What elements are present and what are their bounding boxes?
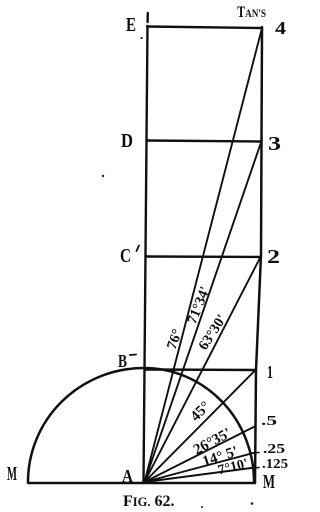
svg-text:FIG. 62.: FIG. 62. bbox=[123, 493, 175, 510]
svg-text:E: E bbox=[126, 14, 136, 36]
svg-text:TAN'S: TAN'S bbox=[237, 4, 266, 21]
svg-text:2: 2 bbox=[267, 246, 280, 268]
svg-text:D: D bbox=[121, 130, 133, 152]
svg-text:B: B bbox=[118, 351, 127, 371]
svg-text:.125: .125 bbox=[262, 457, 288, 472]
svg-text:M: M bbox=[263, 471, 275, 493]
svg-text:1: 1 bbox=[267, 362, 273, 382]
svg-text:.5: .5 bbox=[261, 414, 277, 429]
svg-text:.25: .25 bbox=[263, 442, 285, 457]
svg-text:C: C bbox=[120, 245, 131, 267]
svg-text:M: M bbox=[7, 463, 17, 485]
svg-text:3: 3 bbox=[268, 133, 281, 155]
svg-text:A: A bbox=[122, 466, 133, 486]
svg-text:4: 4 bbox=[275, 18, 286, 38]
